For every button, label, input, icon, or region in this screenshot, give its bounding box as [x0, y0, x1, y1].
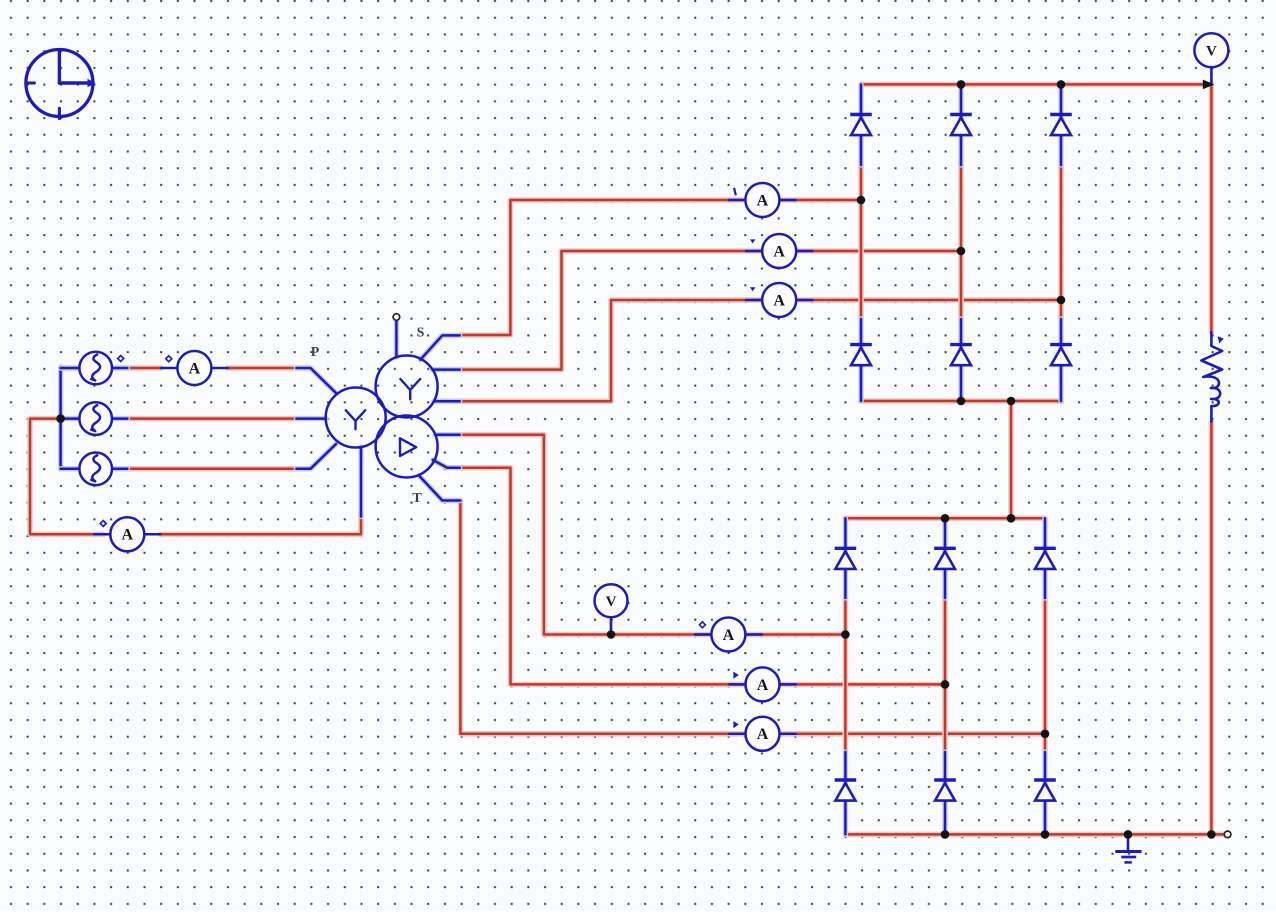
transformer secondary winding S — [376, 356, 438, 418]
wire source2 left lead — [61, 416, 80, 421]
wire source neutral bus — [58, 367, 63, 469]
junction source bus — [56, 414, 65, 423]
ammeter A1 (phase source) — [161, 351, 227, 385]
diode D9 (bottom bridge upper) — [1034, 548, 1056, 569]
svg-text:A: A — [773, 243, 785, 260]
node terminal secondary neutral — [393, 314, 400, 321]
junction neg rail link — [1007, 397, 1016, 406]
wire bottom bridge leg 2 upper — [942, 518, 947, 598]
wire source3 left lead — [61, 466, 80, 471]
wire top bridge leg 3 upper — [1058, 84, 1063, 165]
wire top bridge leg 3 lower — [1058, 319, 1063, 401]
marker ammeter A8 — [733, 721, 738, 728]
wire top bridge leg 1 lower — [858, 319, 863, 401]
ammeter A5 (top bridge row 3) — [746, 283, 812, 317]
svg-text:T: T — [412, 491, 422, 506]
junction row6 leg3 — [1041, 730, 1050, 739]
transformer primary winding P — [326, 388, 386, 448]
junction return leg3 — [1041, 830, 1050, 839]
junction pos rail2 link — [1007, 514, 1016, 523]
ammeter A3 (top bridge row 1) — [729, 183, 795, 217]
wire top bridge negative rail — [861, 398, 1061, 404]
wire tertiary lead T3 — [419, 476, 460, 501]
junction return leg2 — [941, 830, 950, 839]
marker ammeter A3 — [734, 189, 735, 194]
marker ammeter A5 — [750, 287, 755, 291]
wire bottom bridge leg 1 lower — [843, 752, 848, 834]
clock element — [26, 50, 96, 119]
marker ammeter A1 polarity — [166, 356, 172, 362]
junction V2 probe — [607, 630, 616, 639]
ac source VS1 — [79, 352, 112, 385]
junction row1 leg1 — [857, 196, 866, 205]
ground — [1115, 834, 1141, 862]
node arrow V1 rail end — [1203, 80, 1214, 90]
wire S2 to top bridge row 2 — [460, 251, 961, 370]
wire bottom bridge leg 1 mid — [843, 598, 849, 752]
wire bottom bridge leg 2 mid — [942, 598, 948, 752]
diode D2 (top bridge upper) — [950, 115, 972, 136]
svg-text:A: A — [757, 726, 769, 743]
junction load return — [1207, 830, 1216, 839]
ac source VS3 — [79, 453, 112, 486]
junction neg rail leg2 — [957, 397, 966, 406]
ammeter A2 (neutral) — [94, 517, 160, 551]
junction row3 leg3 — [1057, 296, 1066, 305]
wire top bridge leg 3 mid — [1058, 165, 1064, 319]
ammeter A8 (bottom bridge row 3) — [730, 717, 796, 751]
svg-text:V: V — [606, 594, 617, 610]
wire top bridge leg 1 upper — [858, 84, 863, 165]
wire bottom bridge negative rail / return — [845, 832, 1224, 838]
ammeter A7 (bottom bridge row 2) — [730, 667, 796, 701]
wire load drop — [1209, 84, 1215, 332]
wire secondary neutral lead — [394, 320, 399, 357]
wire load to return rail — [1209, 422, 1215, 835]
diode D3 (top bridge upper) — [1050, 115, 1072, 136]
wire top bridge leg 2 lower — [958, 319, 963, 401]
wire top bridge leg 2 mid — [958, 165, 964, 319]
svg-text:A: A — [757, 677, 769, 694]
wire S3 to top bridge row 3 — [460, 300, 1061, 401]
wire source1 left lead — [61, 365, 80, 370]
wire bottom bridge leg 2 lower — [942, 752, 947, 834]
svg-text:A: A — [723, 627, 735, 644]
wire secondary lead S1 — [420, 335, 459, 359]
wire source2 right lead — [112, 416, 128, 421]
wire top bridge leg 1 mid — [858, 165, 864, 319]
wire secondary lead S2 — [433, 367, 460, 372]
diode D6 (top bridge lower) — [1050, 345, 1072, 366]
wire T1 to bottom bridge row 1 — [460, 435, 846, 635]
diode D12 (bottom bridge lower) — [1034, 780, 1056, 801]
node terminal return rail end — [1224, 831, 1231, 838]
wire S1 to top bridge row 1 — [460, 200, 861, 335]
svg-text:A: A — [773, 292, 785, 309]
wire bottom bridge leg 3 upper — [1042, 518, 1047, 598]
wire bridge link — [1008, 401, 1014, 518]
wire ammeter A1 to primary lead P1 — [228, 365, 297, 371]
svg-text:S: S — [417, 326, 425, 341]
transformer tertiary winding T — [376, 416, 438, 478]
wire primary star-point lead — [358, 447, 363, 517]
wire top bridge leg 2 upper — [958, 84, 963, 165]
wire source3 to primary lead P3 — [127, 466, 296, 472]
svg-text:V: V — [1206, 43, 1217, 59]
svg-text:A: A — [189, 360, 201, 377]
junction row2 leg2 — [957, 247, 966, 256]
junction pos rail2 leg2 — [941, 514, 950, 523]
junction top rail leg2 — [957, 80, 966, 89]
wire source2 to primary lead P2 — [127, 416, 296, 422]
voltmeter V1 (dc output) — [1194, 33, 1228, 84]
label T — [412, 491, 422, 506]
wire bottom bridge leg 3 lower — [1042, 752, 1047, 834]
wire primary lead P2 — [296, 416, 326, 421]
label S — [417, 326, 425, 341]
voltmeter V2 (tertiary) — [595, 584, 628, 634]
wire source1 right lead — [112, 365, 128, 370]
wire secondary lead S3 — [434, 399, 460, 404]
ac source VS2 — [79, 402, 112, 435]
marker ammeter A2 polarity — [100, 521, 106, 527]
diode D8 (bottom bridge upper) — [934, 548, 956, 569]
diode D1 (top bridge upper) — [850, 115, 872, 136]
marker ammeter A6 polarity — [699, 622, 705, 628]
wire bottom bridge leg 3 mid — [1042, 598, 1048, 752]
wire bottom bridge leg 1 upper — [843, 518, 848, 598]
junction row4 leg1 — [841, 630, 850, 639]
wire neutral loop left — [30, 419, 103, 535]
junction row5 leg2 — [941, 680, 950, 689]
ammeter A4 (top bridge row 2) — [746, 234, 812, 268]
label P — [311, 345, 320, 360]
wire T2 to bottom bridge row 2 — [460, 468, 945, 685]
junction ground — [1124, 830, 1133, 839]
wire T3 to bottom bridge row 3 — [460, 501, 1045, 734]
diode D5 (top bridge lower) — [950, 345, 972, 366]
diode D4 (top bridge lower) — [850, 345, 872, 366]
wire primary lead P1 — [296, 368, 336, 393]
wire source3 right lead — [112, 466, 128, 471]
diode D10 (bottom bridge lower) — [835, 780, 857, 801]
svg-text:A: A — [757, 192, 769, 209]
wire top bridge positive rail — [861, 82, 1211, 88]
wire primary lead P3 — [296, 444, 336, 469]
wire tertiary lead T2 — [433, 460, 460, 468]
wire bottom bridge positive rail — [845, 515, 1045, 521]
diode D7 (bottom bridge upper) — [835, 548, 857, 569]
marker source1 polarity — [118, 356, 124, 362]
junction top rail leg3 — [1057, 80, 1066, 89]
ammeter A6 (bottom bridge row 1) — [695, 618, 761, 652]
wire tertiary lead T1 — [435, 432, 459, 437]
marker ammeter A4 — [750, 239, 755, 243]
wire neutral ammeter A2 to primary star point — [161, 516, 361, 535]
svg-text:A: A — [122, 527, 134, 544]
diode D11 (bottom bridge lower) — [934, 780, 956, 801]
wire source1 to ammeter A1 — [127, 365, 161, 371]
svg-text:P: P — [311, 345, 320, 360]
marker ammeter A7 — [733, 672, 738, 679]
load resistor-inductor RL — [1201, 332, 1224, 421]
